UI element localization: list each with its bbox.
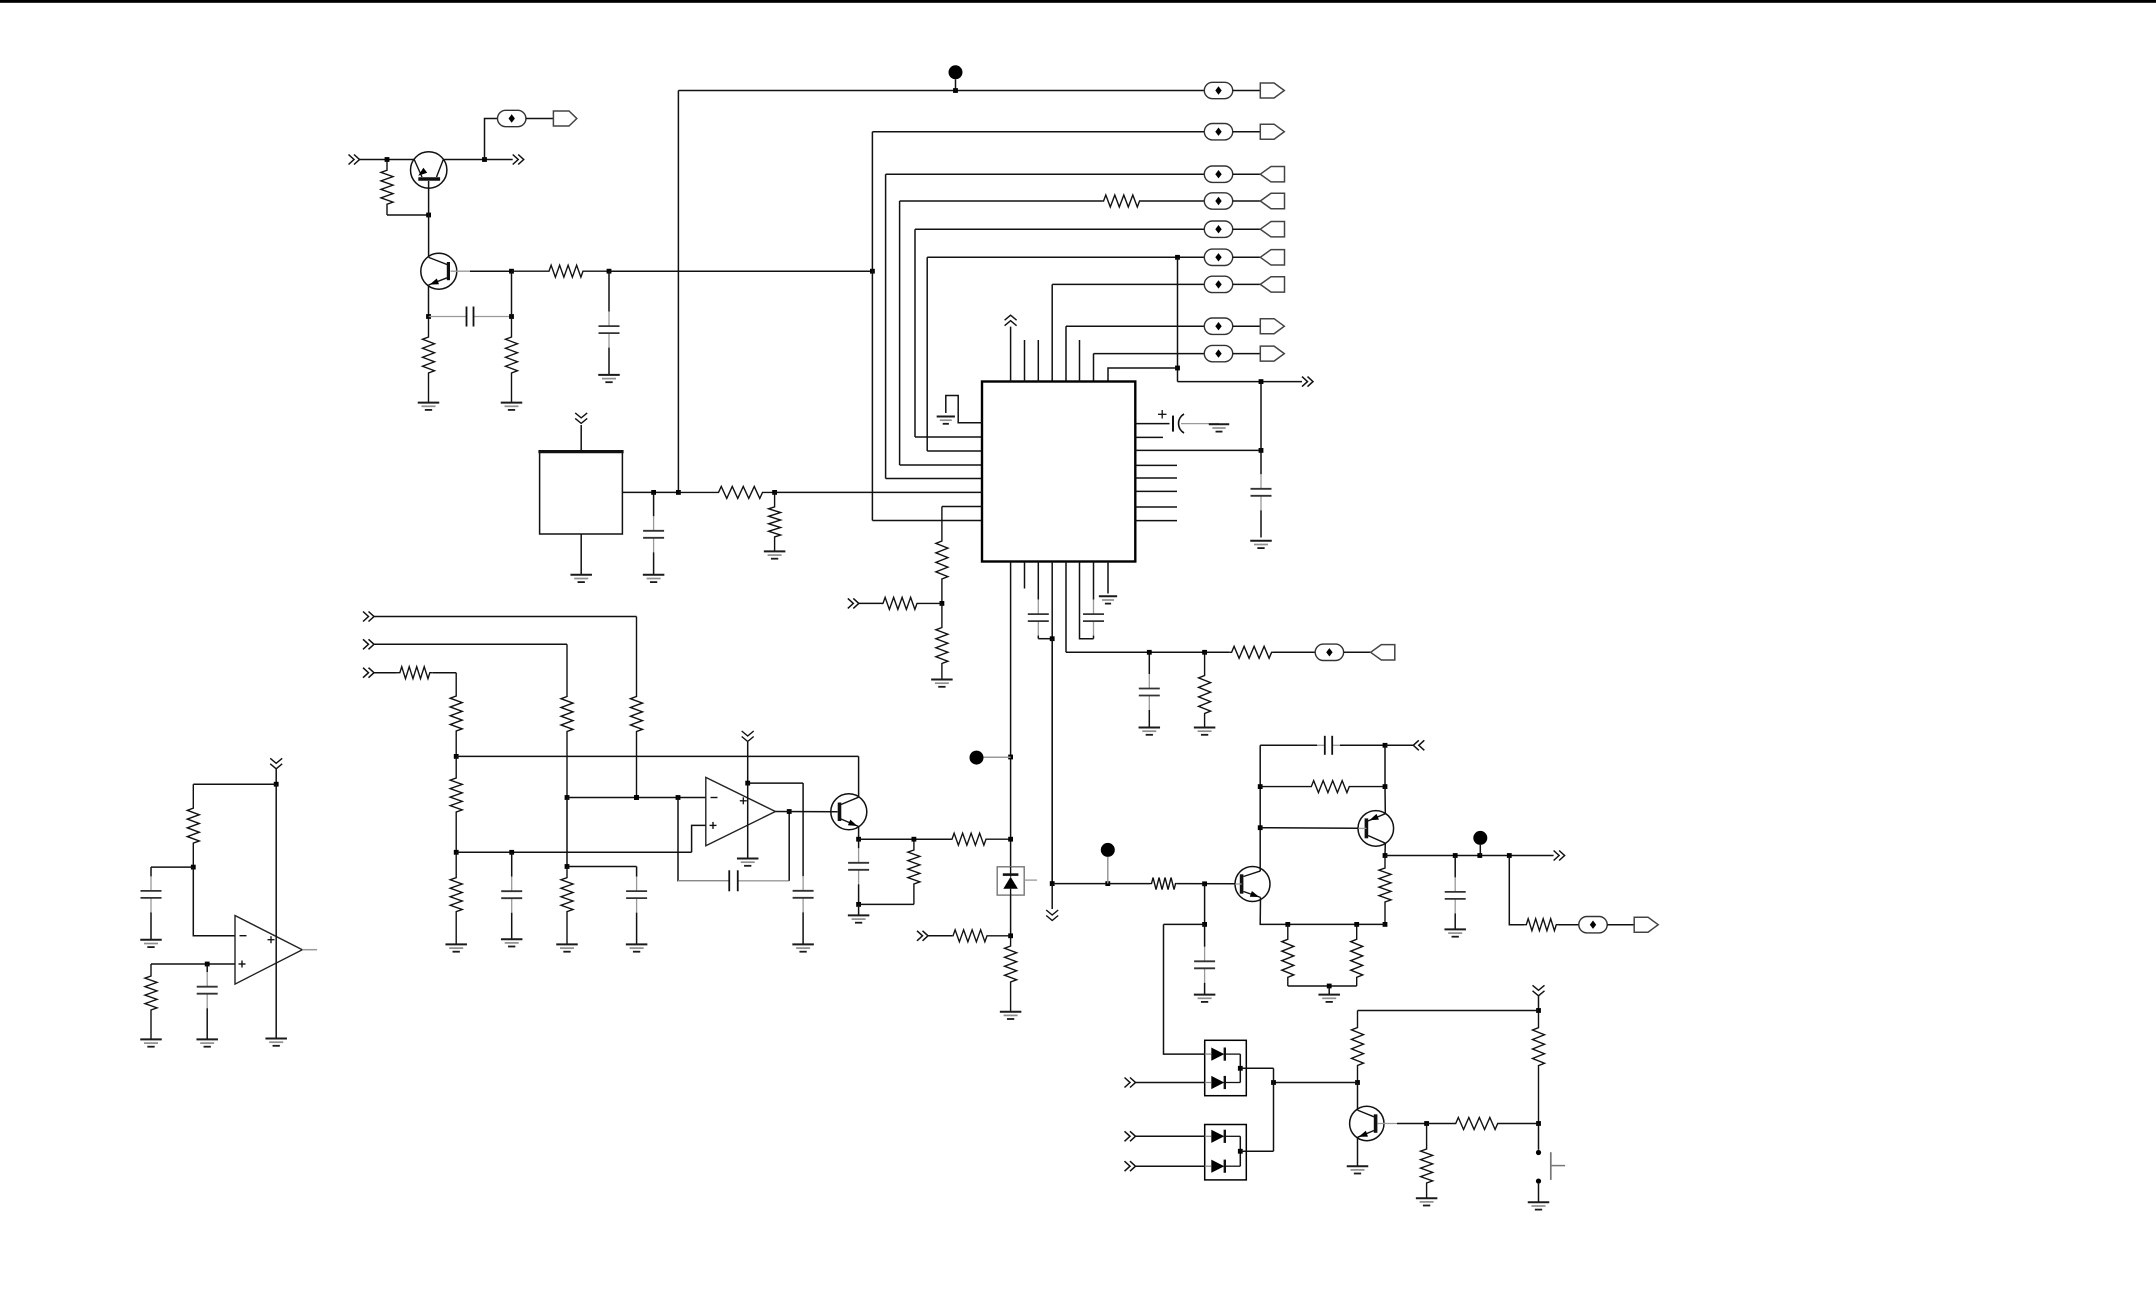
wire Q3 emitter (858, 827, 860, 840)
resistor R23 (1005, 936, 1017, 1012)
ground G-IC-bot (1099, 596, 1117, 603)
ground G-C8 (501, 939, 523, 946)
node net10 tee (1175, 366, 1180, 371)
flag row7 (1260, 277, 1284, 292)
wire row6 vertical feeder (926, 257, 928, 451)
node supply rail tee (1050, 881, 1055, 886)
wire packs to Q7 (1274, 1082, 1358, 1084)
diode pack DP2 box (1205, 1125, 1247, 1180)
connector arrow FB (1413, 740, 1424, 750)
net ball right (1101, 843, 1115, 857)
supply down-arrow U4 (270, 758, 282, 769)
resistor R20 (952, 833, 1011, 845)
ground G-U4 (265, 1039, 287, 1046)
wire row4 to oval (1141, 200, 1205, 202)
arrow Q2 emitter (430, 279, 440, 285)
node out branch tee (1507, 853, 1512, 858)
ground G-C17 (196, 1039, 218, 1046)
wire net10 to IC pin (1108, 368, 1178, 382)
node fb top right (1383, 743, 1388, 748)
box U2 (538, 451, 623, 534)
resistor R35 (145, 964, 157, 1039)
capacitor C8 (501, 852, 522, 939)
switch SW1 (1536, 1150, 1565, 1184)
wire pack DP2 cathode join (1239, 1136, 1241, 1166)
node aux res (1202, 650, 1207, 655)
wire base down (1204, 884, 1206, 925)
flag row3 (1260, 167, 1284, 182)
capacitor C4 (1028, 562, 1049, 639)
wire Q5 base a (1108, 883, 1150, 885)
wire row6 horizontal (927, 256, 1204, 258)
wire VCC to IC (1010, 327, 1012, 382)
node supply bot (1536, 1008, 1541, 1013)
polarized capacitor C+ at IC (1158, 410, 1219, 433)
node deg res a (1285, 922, 1290, 927)
resistor R13 (561, 644, 573, 797)
wire MIDIN-A (374, 616, 637, 618)
connector input arrow IN1 (349, 155, 360, 165)
flag row4 (1260, 193, 1284, 208)
wire pack DP2 exit (1240, 1150, 1273, 1152)
node vref1 (454, 754, 459, 759)
node row1 junction (953, 88, 958, 93)
wire feedback tee (678, 798, 729, 881)
IC top pin stub 3 (1037, 340, 1039, 382)
flag OUT (1634, 917, 1658, 932)
flag row5 (1260, 222, 1284, 237)
net oval row8 (1204, 318, 1232, 334)
resistor R15 (450, 673, 462, 757)
resistor R row4 (1103, 195, 1141, 207)
node R18 bottom (565, 864, 570, 869)
wire PK2-A (1136, 1135, 1205, 1137)
capacitor C9 (626, 867, 647, 945)
IC bottom pin8 stub (1107, 562, 1109, 594)
wire out branch (1509, 856, 1524, 925)
wire fb rail left (1259, 745, 1261, 871)
flag row9 (1260, 346, 1284, 361)
node R12 bottom (634, 795, 639, 800)
flag NET1 (553, 111, 576, 126)
node row6 junction (1175, 255, 1180, 260)
capacitor C11 (793, 783, 814, 944)
wire row6 feeder to IC (927, 450, 982, 452)
net oval row5 (1204, 221, 1232, 237)
node U2 out cap (651, 490, 656, 495)
resistor R16 (450, 756, 462, 852)
wire fb top (1260, 744, 1317, 746)
capacitor C6 (1139, 652, 1160, 727)
ground G-U2 (570, 575, 592, 582)
wire D1 to node (1010, 895, 1012, 936)
connector arrow PK2-A (1125, 1131, 1136, 1141)
transistor Q2 (421, 253, 470, 289)
wire MIDIN-B (374, 643, 567, 645)
node Q6 base tee (1258, 825, 1263, 830)
ground G2 (501, 403, 523, 410)
resistor R19 (561, 867, 573, 945)
net oval AUX (1315, 644, 1343, 660)
IC bottom pin2 stub (1024, 562, 1026, 589)
ground G-C14 (1444, 929, 1466, 936)
capacitor C2 (599, 271, 620, 375)
capacitor C13 (1317, 736, 1340, 755)
wire ball1 stem (984, 756, 1011, 758)
wire row9 vertical to IC (1093, 354, 1095, 382)
wire row2 oval-flag (1233, 131, 1261, 133)
node deg res b (1354, 922, 1359, 927)
resistor R14 (397, 667, 433, 679)
diode pack DP1 box (1205, 1040, 1247, 1095)
IC bottom pin5 (1065, 562, 1067, 653)
connector arrow MIDIN-C (363, 668, 374, 678)
capacitor C14 (1445, 856, 1466, 930)
wire supply to U2 (580, 425, 582, 451)
node base divider junction (385, 157, 390, 162)
wire BIAS-IN (928, 935, 952, 937)
wire minus net left (151, 866, 193, 868)
IC right pin stub y478.0 (1135, 477, 1177, 479)
capacitor C10 feedback (678, 870, 789, 891)
node vref2 (454, 850, 459, 855)
wire pack DP1 exit (1240, 1067, 1273, 1069)
resistor R7 (678, 486, 774, 498)
resistor R26 (1282, 924, 1294, 986)
wire net10cap vertical (1260, 382, 1262, 451)
wire opamp minus bus (567, 797, 706, 799)
wire row8 oval-flag (1233, 325, 1261, 327)
node Q2 base net (509, 269, 514, 274)
connector arrow OUT-R (1554, 851, 1565, 861)
wire IC right pin3 net (1135, 449, 1261, 451)
ground G-C9 (626, 944, 648, 951)
wire Q7 emitter (1357, 1137, 1359, 1166)
node R31 bottom (1536, 1121, 1541, 1126)
resistor R33 (1427, 1118, 1539, 1130)
node U4 supply (274, 782, 279, 787)
net ball mid (970, 751, 984, 765)
ground G-R19 (556, 944, 578, 951)
wire packs vertical (1273, 1068, 1275, 1151)
flag row1 (1260, 83, 1284, 98)
node packs junction (1271, 1080, 1276, 1085)
node U4 minus net (191, 865, 196, 870)
wire U3 out to Q3 (775, 811, 837, 813)
resistor R2 (423, 317, 435, 403)
wire row2 vertical feeder (871, 132, 873, 521)
ground G-C16 (140, 940, 162, 947)
resistor R30 (1352, 1011, 1364, 1083)
node deg gnd (1327, 984, 1332, 989)
wire aux net (1066, 651, 1205, 653)
wire switch top (1538, 1124, 1540, 1150)
IC U1 (982, 382, 1135, 562)
wire row5 horizontal (915, 228, 1204, 230)
wire row3 horizontal (886, 173, 1205, 175)
wire Q1 collector to out node (443, 159, 513, 161)
node minus bus c (676, 795, 681, 800)
ground G-C11 (792, 944, 814, 951)
wire fb right riser (1384, 745, 1386, 786)
IC right pin stub y520.6 (1135, 520, 1177, 522)
wire plus input riser (692, 825, 706, 852)
diode DP12 (1205, 1076, 1241, 1089)
node R7 right (772, 490, 777, 495)
wire R21 bottom (859, 903, 914, 905)
node ball2 join (1105, 881, 1110, 886)
wire to FB input (1385, 744, 1413, 746)
node U3 output (787, 809, 792, 814)
node R13 bottom (565, 795, 570, 800)
wire row4 oval-flag (1233, 200, 1261, 202)
wire row3 feeder to IC (886, 478, 982, 480)
wire Q5 emitter down (1260, 897, 1385, 924)
resistor R11 (936, 603, 948, 679)
node Q7 collector (1355, 1080, 1360, 1085)
ground G-C7 (643, 575, 665, 582)
ground G-R32 (1416, 1198, 1438, 1205)
wire rail to Q5 base (1052, 883, 1108, 885)
wire OUT oval-flag (1607, 924, 1634, 926)
ground G-Q3 (848, 915, 870, 922)
node diode top (1008, 837, 1013, 842)
node emitter gnd bus (856, 902, 861, 907)
wire net10 out (1178, 381, 1303, 383)
ground G-U3 (737, 859, 759, 866)
ground G-C15 (1194, 995, 1216, 1002)
wire R4 to row2 feeder (609, 270, 872, 272)
node output (1383, 853, 1388, 858)
ground G-R35 (140, 1039, 162, 1046)
wire base low left (1164, 923, 1205, 925)
net oval row6 (1204, 249, 1232, 265)
wire vref2 bus (456, 851, 691, 853)
wire Q7 collector (1357, 1083, 1359, 1111)
wire D1 rail to supply (1051, 639, 1053, 884)
node bias (1008, 933, 1013, 938)
node Q3 emitter (856, 837, 861, 842)
wire U4 output stub (302, 949, 317, 951)
wire C5 to pin6 (1080, 562, 1094, 639)
resistor R5 (1199, 652, 1211, 727)
node Q5 base (1202, 881, 1207, 886)
resistor R4 (512, 265, 610, 277)
node pack DP1 out (1238, 1066, 1243, 1071)
node U3 Vplus (745, 781, 750, 786)
wire to diode packs (1164, 924, 1205, 1054)
wire R14 to R15 (433, 672, 456, 674)
capacitor C12 (848, 839, 869, 904)
wire ball stem row1 (955, 79, 957, 90)
connector arrow PK1-B (1125, 1078, 1136, 1088)
ground G-R17 (445, 944, 467, 951)
arrow Q5 emitter (1250, 891, 1260, 897)
wire row1 vertical feeder (677, 91, 679, 493)
wire row6 oval-flag (1233, 256, 1261, 258)
wire C13 to node (1340, 744, 1385, 746)
wire row1 oval-flag (1233, 90, 1261, 92)
ground G-R23 (1000, 1012, 1022, 1019)
wire row5 oval-flag (1233, 228, 1261, 230)
node Q1 base / Q2 collector (426, 213, 431, 218)
node U2 out feeder (676, 490, 681, 495)
transistor Q6 (1358, 811, 1394, 847)
node R21 top (912, 837, 917, 842)
node pack DP2 out (1238, 1149, 1243, 1154)
wire row5 vertical feeder (914, 229, 916, 437)
resistor R24 (1260, 781, 1385, 793)
IC right pin stub y491.4 (1135, 490, 1177, 492)
flag row6 (1260, 250, 1284, 265)
wire aux to R6 (1205, 651, 1230, 653)
net oval row2 (1204, 124, 1232, 140)
wire IC pin7 to chain (942, 506, 982, 508)
capacitor C3 (1251, 450, 1272, 537)
wire Q6 emitter up (1384, 787, 1386, 814)
wire switch bottom (1538, 1184, 1540, 1203)
node right cap net (1259, 448, 1264, 453)
capacitor C16 (141, 867, 162, 940)
connector arrow MIDIN-A (363, 612, 374, 622)
resistor R29 (1150, 878, 1177, 890)
IC bottom pin1 long (1010, 562, 1012, 867)
net oval row7 (1204, 276, 1232, 292)
flag AUX (1371, 645, 1395, 660)
node minus bus b (634, 795, 639, 800)
wire to G-Q3 (858, 904, 860, 915)
ground G-C+ (1209, 424, 1229, 431)
wire row9 horizontal (1094, 353, 1205, 355)
ground G-IC-left (937, 417, 955, 424)
net oval row1 (1204, 82, 1232, 98)
connector arrow chain-in (848, 598, 859, 608)
resistor R3 (506, 317, 518, 403)
ground G-C3 (1250, 541, 1272, 548)
node fb res left (1258, 784, 1263, 789)
wire U3 V rail through (747, 783, 749, 858)
supply down-arrow U2 (575, 413, 587, 424)
node aux cap (1147, 650, 1152, 655)
net oval row4 (1204, 193, 1232, 209)
node Q1 output (482, 157, 487, 162)
ground G1 (418, 403, 440, 410)
diode DP11 (1205, 1048, 1241, 1061)
resistor R1 (381, 160, 393, 216)
supply down-arrow rail (1046, 910, 1058, 921)
capacitor C5 (1083, 562, 1104, 639)
wire U3 Vplus (747, 742, 749, 783)
wire IC right pin1 to cap (1135, 423, 1169, 425)
top border bar (0, 0, 2156, 3)
wire U4 supply (275, 769, 277, 784)
wire U2 output (622, 491, 678, 493)
wire row4 feeder to IC (900, 464, 982, 466)
IC top pin stub 6 (1079, 340, 1081, 382)
transistor Q7 (1350, 1106, 1397, 1140)
wire Q2 base (470, 270, 512, 272)
wire C9 stub (567, 866, 637, 868)
node out ball tee (1477, 853, 1482, 858)
wire output bus (1385, 855, 1554, 857)
node chain mid (940, 601, 945, 606)
wire chain-in (859, 602, 884, 604)
resistor R12 (631, 617, 643, 798)
net oval OUT (1579, 917, 1607, 933)
ground G-SW (1528, 1202, 1550, 1209)
wire row7 horizontal (1052, 283, 1204, 285)
diode DP22 (1205, 1160, 1241, 1173)
wire PK2-B (1136, 1165, 1205, 1167)
supply down-arrow U3 (742, 731, 754, 742)
wire feedback up (788, 812, 790, 881)
resistor R8 (769, 492, 781, 551)
wire row4 vertical feeder (899, 201, 901, 465)
node Q2 emitter (426, 314, 431, 319)
net oval row3 (1204, 166, 1232, 182)
net ball out (1473, 831, 1487, 845)
wire Q3 collector riser (858, 756, 860, 797)
IC right pin stub y507.0 (1135, 506, 1177, 508)
wire row9 oval-flag (1233, 353, 1261, 355)
capacitor C1 (429, 307, 512, 327)
wire AUX oval-flag (1344, 651, 1371, 653)
wire R1 bottom to base node (387, 214, 429, 216)
node R4 right (607, 269, 612, 274)
wire Q5 base b (1177, 883, 1235, 885)
wire IN1 to Q1 emitter (360, 159, 415, 161)
supply down-arrow BOT (1533, 985, 1545, 996)
ground G-C6 (1139, 728, 1161, 735)
wire supply to R34 (193, 783, 276, 785)
wire net10 vertical (1177, 257, 1179, 381)
wire R28 to oval (1559, 924, 1579, 926)
connector arrow net10 (1302, 377, 1313, 387)
resistor R27 (1351, 924, 1363, 986)
node out cap tee (1453, 853, 1458, 858)
node C1 right (509, 314, 514, 319)
resistor R21 (908, 839, 920, 904)
node Q6 emitter net (1383, 784, 1388, 789)
IC bottom pin4 long (1051, 562, 1053, 884)
ground G-R5 (1194, 728, 1216, 735)
transistor Q1 (411, 152, 447, 215)
wire U2 to ground (580, 534, 582, 575)
node base low (1202, 922, 1207, 927)
resistor R22 (952, 930, 1010, 942)
resistor R10 (883, 597, 942, 609)
transistor Q5 (1235, 867, 1270, 902)
op-amp U4 (235, 916, 302, 985)
wire to oval connector NET1 (485, 119, 498, 160)
wire Q2 emitter (428, 285, 430, 317)
wire minus-net riser (566, 798, 568, 867)
flag row2 (1260, 124, 1284, 139)
arrow Q1 emitter (418, 168, 427, 176)
transistor Q3 (831, 794, 867, 830)
wire supply bus (1358, 1010, 1539, 1012)
wire ball out stem (1479, 845, 1481, 856)
wire PK1-B (1136, 1082, 1205, 1084)
wire Vplus to C11 (748, 782, 803, 784)
ground G3 (598, 375, 620, 382)
wire ball2 stem (1107, 857, 1109, 884)
net oval row9 (1204, 345, 1232, 361)
resistor R34 (187, 784, 199, 867)
wire row3 vertical feeder (885, 174, 887, 478)
wire base net down (511, 271, 513, 316)
wire supply bot (1538, 996, 1540, 1011)
